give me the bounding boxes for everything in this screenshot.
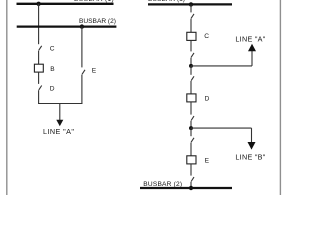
svg-text:BUSBAR (1): BUSBAR (1) [74,0,114,3]
arrowhead: LINE "B" (pointing down) [248,142,256,150]
busbar BUSBAR (2) left [17,25,117,27]
svg-text:BUSBAR (2): BUSBAR (2) [79,18,116,25]
svg-text:E: E [205,157,210,164]
arrowhead: LINE "A" (pointing up) [248,44,256,52]
wire: breaker B to isolator D [38,72,40,84]
svg-text:C: C [50,45,55,52]
wire: busbar 2 down to isolator E [81,27,83,68]
svg-text:D: D [205,95,210,102]
isolator switch (above busbar 2) [191,177,194,181]
arrowhead: feeder LINE "A" left [56,120,63,126]
wire: busbar 1 down to isolator 1 [190,4,192,12]
wire: busbar 1 down to isolator C [38,4,40,44]
wire: isolator 5 to breaker E [190,143,192,156]
node: junction dot on right busbar 2 [189,186,193,190]
wire: tap to LINE "A" (horizontal) [191,65,252,67]
busbar BUSBAR (1) right [148,3,232,5]
node A: junction dot for LINE "A" tap [189,64,193,68]
svg-text:LINE "B": LINE "B" [235,153,265,162]
right sheet border [279,0,281,195]
circuit-breaker D (box) [187,94,196,102]
isolator switch (above breaker D) [191,76,194,80]
wire: breaker D to isolator 4 [190,102,192,115]
svg-text:BUSBAR (1): BUSBAR (1) [148,0,185,3]
busbar BUSBAR (1) left [17,3,114,5]
wire: bottom tee connector [38,103,82,105]
wire: isolator to breaker C [190,19,192,33]
wire: node B down to isolator 5 [190,128,192,136]
wire: isolator E down to tee [81,75,83,105]
wire: feeder arrow stem [59,104,61,121]
svg-text:LINE "A": LINE "A" [235,34,265,43]
circuit-breaker E (box) [187,156,196,164]
isolator switch D (blade) [39,86,42,90]
circuit-breaker B (box) [34,64,43,72]
wire: LINE "B" dropper (vertical down) [251,128,253,142]
node: junction dot on right busbar 1 [189,2,193,6]
wire: isolator 3 to breaker D [190,81,192,94]
wire: isolator 6 to busbar 2 [190,182,192,188]
isolator switch (top of breaker C) [191,14,194,18]
node: junction dot on left busbar 2 [80,24,84,28]
isolator switch (below breaker D) [191,116,194,120]
svg-text:LINE "A": LINE "A" [43,127,74,136]
svg-text:D: D [50,85,55,92]
circuit-breaker C (box) [187,32,196,40]
wire: tap to LINE "B" (horizontal) [191,127,252,129]
wire: isolator D down to tee [38,90,40,104]
wire: node A down to isolator 3 [190,66,192,75]
left sheet border [6,0,8,195]
node: junction dot on left busbar 1 [36,2,40,6]
svg-text:E: E [92,67,97,74]
svg-text:BUSBAR (2): BUSBAR (2) [143,181,182,188]
isolator switch (below breaker C) [191,53,194,57]
busbar BUSBAR (2) right [140,187,232,189]
wire: isolator C to breaker B [38,51,40,65]
isolator switch (above breaker E) [191,138,194,142]
isolator switch C (blade) [39,46,42,50]
wire: isolator 4 to node B [190,121,192,128]
svg-text:B: B [50,66,55,73]
wire: isolator 2 to node A [190,58,192,66]
isolator switch E (blade) [82,70,85,74]
wire: breaker C to isolator 2 [190,40,192,51]
node B: junction dot for LINE "B" tap [189,126,193,130]
wire: LINE "A" riser (vertical up) [251,51,253,66]
wire: breaker E to isolator 6 [190,164,192,176]
svg-text:C: C [204,33,209,40]
